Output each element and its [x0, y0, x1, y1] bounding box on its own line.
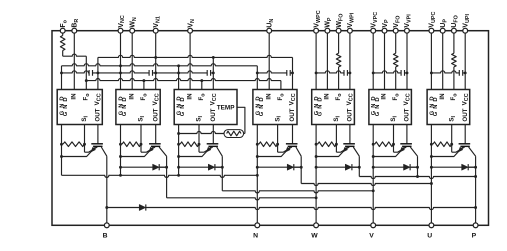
svg-text:V: V [369, 232, 374, 239]
terminal Fo (top pin) [60, 28, 65, 33]
resistor pull-up on VFO line [393, 33, 398, 90]
wire B to P brake diode line [107, 208, 476, 210]
wire SI sense line U4 [278, 125, 292, 153]
junction on decoupling rail [212, 71, 215, 74]
IGBT Q3 U high [431, 125, 475, 157]
brake freewheel diode D7 [139, 204, 146, 210]
wire N emitter bus [62, 175, 258, 177]
wire VN1 supply bus (to VCC pins of U1,U3,U4) [98, 55, 293, 89]
junction D6 anode [256, 166, 259, 169]
wire freewheel diode D1 line [316, 166, 359, 168]
junction D5 cathode [221, 166, 224, 169]
terminal VUPC (top pin) [429, 28, 434, 33]
terminal VVPC (top pin) [371, 28, 376, 33]
junction resistor/SI [276, 143, 279, 146]
terminal BR (top pin) [72, 28, 77, 33]
junction N bus / U2 GND [119, 174, 122, 177]
svg-text:OUT: OUT [462, 108, 469, 121]
wire SI sense line U3 [199, 125, 213, 153]
wire N-side supply VN1 [155, 33, 157, 90]
svg-text:IN: IN [71, 93, 78, 100]
junction resistor/SI [335, 143, 338, 146]
junction D3 cathode [474, 166, 477, 169]
junction VN1 bus / U4 VCC branch [291, 71, 294, 74]
alarm output resistor on Fo line [60, 33, 65, 56]
wire UP input line [442, 33, 444, 90]
gate driver IC U4 (U low-side) [253, 90, 297, 125]
terminal VVPI (top pin) [405, 28, 410, 33]
junction resistor/GND [256, 143, 259, 146]
junction resistor/SI [198, 143, 201, 146]
junction D3 anode [430, 166, 433, 169]
wire V phase vertical (U6 GND to V terminal) [372, 125, 374, 224]
resistor pull-up on WFO line [336, 33, 341, 90]
wire U2 GND vertical [120, 125, 122, 176]
svg-text:IN: IN [324, 93, 331, 100]
wire SI sense line U2 [141, 125, 155, 153]
wire freewheel diode D3 line [431, 166, 475, 168]
svg-text:GND: GND [259, 94, 265, 116]
junction Fo bus / U2 Fo [143, 81, 145, 90]
gate driver IC U3 (V low-side) [174, 90, 237, 125]
terminal V (bottom power pin) [371, 223, 376, 228]
capacitor CVP (V high-side supply) [401, 70, 404, 76]
terminal VP (top pin) [382, 28, 387, 33]
wire decoupling rail with caps C1-C3 [62, 71, 214, 73]
wire V phase route [222, 191, 373, 193]
junction emitter/GND net U3 [177, 155, 180, 158]
gate resistor R4 (GND-SI sense) [259, 142, 278, 147]
junction U route / U vertical [430, 182, 433, 185]
junction resistor/GND [60, 143, 63, 146]
junction D5 anode [177, 166, 180, 169]
junction VVPI / cap wire [406, 71, 409, 74]
capacitor C4 (U4 supply) [287, 70, 290, 76]
terminal VWPI (top pin) [348, 28, 353, 33]
junction emitter/GND net U7 [430, 155, 433, 158]
IGBT Q1 W high [316, 125, 359, 157]
freewheel diode D6 [287, 164, 294, 170]
wire U3 GND pin stub [178, 66, 180, 90]
junction D4 anode [119, 166, 122, 169]
wire decoupling with cap CWP [316, 71, 350, 73]
svg-text:IN: IN [186, 93, 193, 100]
junction on decoupling rail [119, 71, 122, 74]
svg-text:IN: IN [265, 93, 272, 100]
thermistor TH1 [224, 130, 245, 138]
terminal B (bottom power pin) [104, 223, 109, 228]
terminal VWPC (top pin) [314, 28, 319, 33]
junction VNC bus / U4 GND branch [256, 71, 259, 74]
svg-text:OUT: OUT [95, 108, 102, 121]
wire VVPI supply line [406, 33, 408, 90]
wire SI sense line U6 [394, 125, 407, 153]
IGBT Q6 U low [257, 125, 301, 157]
junction D2 anode [372, 166, 375, 169]
IGBT Q4 W low [121, 125, 167, 157]
gate resistor R3 (GND-SI sense) [180, 142, 199, 147]
gate driver IC U5 (W high-side) [312, 90, 355, 125]
wire freewheel diode D4 line [121, 166, 167, 168]
capacitor C2 (U2 supply) [149, 70, 152, 76]
junction resistor/GND [177, 143, 180, 146]
junction resistor/SI [140, 143, 143, 146]
junction emitter/GND net U1 [60, 155, 63, 158]
wire U1 GND vertical down to N bus [61, 125, 63, 176]
svg-text:OUT: OUT [152, 108, 159, 121]
wire V high collector drop [417, 156, 419, 176]
terminal UFO (top pin) [452, 28, 457, 33]
wire SI sense line U5 [336, 125, 349, 153]
junction Fo bus tap [85, 79, 88, 82]
gate driver IC U7 (U high-side) [427, 90, 470, 125]
terminal VN (top pin) [188, 28, 193, 33]
gate driver IC U6 (V high-side) [369, 90, 412, 125]
terminal WN (top pin) [130, 28, 135, 33]
terminal VUPI (top pin) [463, 28, 468, 33]
wire VUPC supply line [430, 33, 432, 90]
junction on decoupling rail [154, 71, 157, 74]
capacitor CWP (W high-side supply) [344, 70, 347, 76]
wire VP input line [384, 33, 386, 90]
capacitor CUP (U high-side supply) [459, 70, 462, 76]
wire VWPI supply line [349, 33, 351, 90]
wire U low collector drop [300, 156, 302, 183]
wire freewheel diode D5 line [179, 166, 223, 168]
junction emitter/GND net U2 [119, 155, 122, 158]
junction W route / W vertical [315, 196, 318, 199]
terminal VN1 (top pin) [153, 28, 158, 33]
terminal WP (top pin) [325, 28, 330, 33]
wire N-side input VN [189, 33, 191, 90]
wire Fo alarm bus (ties Fo pins of U1-U4) [86, 79, 281, 90]
junction N bus / U3 GND [177, 174, 180, 177]
wire N-side input WN [131, 33, 133, 90]
junction resistor/SI [83, 143, 86, 146]
wire N-side input UN [268, 33, 270, 90]
wire W low collector drop [166, 156, 168, 198]
junction resistor/GND [119, 143, 122, 146]
junction resistor/SI [392, 143, 395, 146]
wire W phase route [167, 198, 317, 200]
wire WP input line [326, 33, 328, 90]
junction D1 cathode [358, 166, 361, 169]
junction VWPC / cap wire [315, 71, 318, 74]
gate resistor R6 (GND-SI sense) [375, 142, 394, 147]
terminal P (bottom power pin) [473, 223, 478, 228]
freewheel diode D2 [404, 164, 411, 170]
junction emitter/GND net U5 [315, 155, 318, 158]
svg-text:OUT: OUT [347, 108, 354, 121]
terminal UN (top pin) [267, 28, 272, 33]
resistor pull-up on UFO line [452, 33, 457, 90]
gate resistor R5 (GND-SI sense) [318, 142, 337, 147]
svg-text:GND: GND [122, 94, 128, 116]
terminal VFO (top pin) [393, 28, 398, 33]
junction D1 anode [315, 166, 318, 169]
svg-text:IN: IN [381, 93, 388, 100]
wire BR terminal to U1 IN pin [73, 33, 75, 90]
wire freewheel diode D6 line [257, 166, 301, 168]
wire U phase route [301, 184, 431, 186]
junction D7 line / P vertical [474, 206, 477, 209]
junction HS bus / P vertical [474, 175, 477, 178]
terminal UP (top pin) [440, 28, 445, 33]
wire W phase vertical (U5 GND to W terminal) [315, 125, 317, 224]
junction resistor/GND [372, 143, 375, 146]
junction VVPC / cap wire [372, 71, 375, 74]
wire decoupling with cap CUP [431, 71, 465, 73]
module case outline [52, 31, 489, 226]
junction brake collector / B-P diode line [105, 206, 108, 209]
IGBT Q2 V high [373, 125, 417, 157]
wire VWPC supply line [315, 33, 317, 90]
junction on decoupling rail [96, 71, 99, 74]
freewheel diode D3 [462, 164, 469, 170]
svg-text:N: N [253, 232, 258, 239]
junction VWPI / cap wire [348, 71, 351, 74]
svg-text:TEMP: TEMP [217, 105, 235, 112]
wire TEMP pin from U3 [237, 107, 245, 133]
junction N bus / N vertical [256, 174, 259, 177]
gate resistor R7 (GND-SI sense) [433, 142, 452, 147]
junction emitter/GND net U4 [256, 155, 259, 158]
gate resistor R1 (GND-SI sense) [63, 142, 85, 147]
terminal U (bottom power pin) [429, 223, 434, 228]
svg-text:GND: GND [63, 94, 69, 116]
wire high-side collector bus to P [359, 177, 475, 179]
junction VN1 bus / U3 VCC [212, 56, 215, 59]
wire brake collector to B terminal [106, 156, 108, 223]
wire Fo terminal to U1 Fo pin (hops over BR) [63, 54, 87, 89]
svg-text:P: P [472, 232, 477, 239]
wire U phase vertical (U7 GND to U terminal) [430, 125, 432, 224]
wire thermistor to VNC net (hops over SI,OUT) [179, 131, 224, 133]
terminal W (bottom power pin) [314, 223, 319, 228]
wire freewheel diode D2 line [373, 166, 417, 168]
junction thermistor / U3 GND vertical [177, 132, 180, 135]
wire P vertical (U high collector to P terminal) [475, 156, 477, 223]
gate driver IC U1 (brake) [57, 90, 102, 125]
capacitor C3 (U3 supply) [207, 70, 210, 76]
IGBT Q7 brake [62, 125, 107, 157]
junction resistor/GND [315, 143, 318, 146]
IGBT Q5 V low [179, 125, 223, 157]
wire V low collector drop [221, 156, 223, 191]
freewheel diode D5 [208, 164, 215, 170]
junction emitter/GND net U6 [372, 155, 375, 158]
junction VNC bus / VNC terminal [119, 64, 122, 67]
junction VUPC / cap wire [430, 71, 433, 74]
junction on decoupling rail [60, 71, 63, 74]
junction V route / V vertical [372, 189, 375, 192]
svg-text:B: B [103, 232, 108, 239]
svg-text:OUT: OUT [404, 108, 411, 121]
terminal N (bottom power pin) [255, 223, 260, 228]
wire decoupling with cap CVP [373, 71, 407, 73]
wire U4 GND vertical down to N terminal [256, 125, 258, 224]
wire W high collector drop [358, 156, 360, 176]
wire VVPC supply line [372, 33, 374, 90]
junction HS bus / V high collector [416, 175, 419, 178]
wire VNC ground bus (to GND pins of U1,U3,U4) [62, 64, 258, 90]
junction VNC bus / U3 GND [177, 64, 180, 67]
svg-text:OUT: OUT [289, 108, 296, 121]
junction VUPI / cap wire [464, 71, 467, 74]
capacitor C1 (U1 supply) [89, 70, 92, 76]
terminal VNC (top pin) [118, 28, 123, 33]
svg-text:W: W [311, 232, 318, 239]
svg-text:GND: GND [180, 94, 186, 116]
freewheel diode D1 [345, 164, 352, 170]
svg-text:IN: IN [128, 93, 135, 100]
wire VUPI supply line [464, 33, 466, 90]
junction D4 cathode [165, 166, 168, 169]
wire decoupling stub with cap C4 (U4) [257, 71, 292, 73]
wire U3 VCC pin stub [212, 57, 214, 89]
wire SI sense line U1 [85, 125, 98, 153]
junction resistor/SI [450, 143, 453, 146]
junction D6 cathode [300, 166, 303, 169]
junction VN1 bus / VN1 terminal [154, 56, 157, 59]
junction resistor/GND [430, 143, 433, 146]
gate driver IC U2 (W low-side) [116, 90, 160, 125]
freewheel diode D4 [153, 164, 160, 170]
terminal WFO (top pin) [336, 28, 341, 33]
wire U3 GND vertical [178, 125, 180, 176]
svg-text:IN: IN [439, 93, 446, 100]
junction Fo bus / U3 Fo [201, 81, 203, 90]
junction D2 cathode [416, 166, 419, 169]
gate resistor R2 (GND-SI sense) [122, 142, 141, 147]
wire SI sense line U7 [452, 125, 465, 153]
junction on decoupling rail [177, 71, 180, 74]
wire N-side input VNC [120, 33, 122, 90]
svg-text:U: U [427, 232, 432, 239]
